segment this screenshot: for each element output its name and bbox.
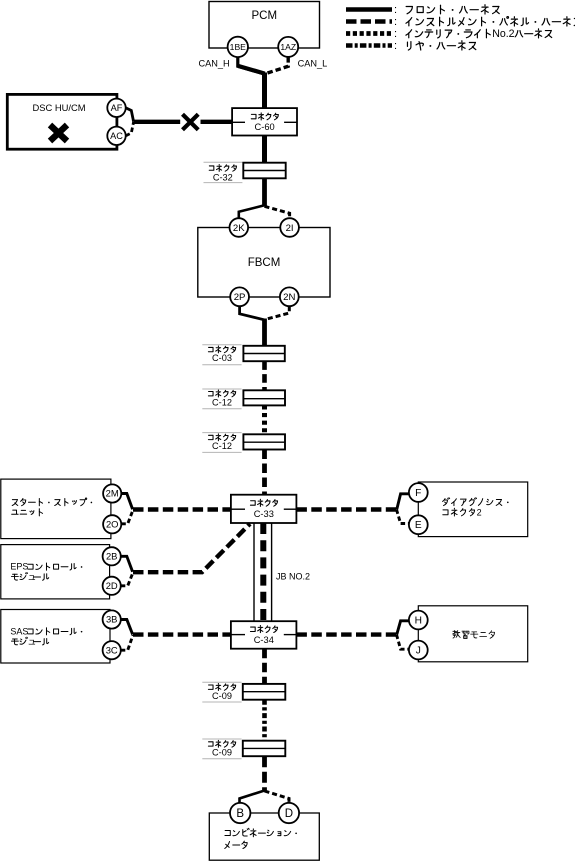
- svg-text:H: H: [415, 616, 422, 627]
- wire CAN_H from 1BE (solid): [238, 57, 264, 74]
- wire merge to F (solid): [397, 494, 409, 510]
- pin H: [409, 611, 428, 630]
- connector C-32 symbol: [243, 163, 285, 179]
- svg-text:2K: 2K: [233, 223, 245, 234]
- svg-text:C-34: C-34: [254, 635, 274, 645]
- wire DSC to C-60 (front harness, solid): [134, 120, 233, 124]
- svg-text:SAS: SAS: [10, 626, 28, 636]
- svg-text:DSC HU/CM: DSC HU/CM: [32, 102, 85, 113]
- DSC bold X mark: [50, 125, 67, 141]
- start-stop unit box: [1, 479, 111, 538]
- svg-text:EPS: EPS: [10, 562, 28, 572]
- svg-text:C-03: C-03: [212, 353, 232, 363]
- svg-text:FBCM: FBCM: [248, 257, 281, 269]
- svg-text:1AZ: 1AZ: [280, 42, 296, 52]
- label JB NO.2: [276, 572, 310, 582]
- connector C-12a symbol: [243, 390, 285, 405]
- svg-text:B: B: [236, 808, 244, 820]
- pin AF: [107, 99, 125, 117]
- connector C-12b label: [212, 441, 232, 451]
- wire split to 2I (dashed): [265, 206, 290, 219]
- connector C-34 label kana: [250, 626, 277, 633]
- connector C-03 label kana: [208, 346, 235, 353]
- legend text: instrument panel harness: [406, 17, 575, 26]
- pin AC: [107, 127, 125, 145]
- connector C-09a label lines: [202, 682, 241, 702]
- pin 2P: [230, 287, 249, 306]
- wire C-33 to C-34 inside JB (dashed): [260, 523, 266, 621]
- wire C-09 to combination meter split (dashed): [262, 756, 267, 792]
- wire from 2D (dashed): [121, 573, 133, 586]
- svg-text:C-32: C-32: [213, 172, 233, 182]
- pin 2N: [280, 287, 299, 306]
- connector C-33 label: [254, 509, 274, 519]
- connector C-12b label kana: [208, 434, 235, 441]
- svg-text:1BE: 1BE: [230, 42, 247, 52]
- combination meter label line 1: [225, 828, 297, 836]
- wire C-03 to C-12 (instrument panel harness, dashed): [262, 361, 267, 390]
- connector C-09b symbol: [243, 741, 285, 757]
- DSC HU/CM label: [32, 102, 85, 113]
- connector C-12a label kana: [208, 390, 235, 397]
- wire C-33 to diagnosis merge (dashed): [296, 507, 396, 511]
- wire from 2B (solid): [121, 556, 133, 572]
- svg-text::: :: [394, 4, 397, 16]
- pin 2O: [103, 515, 121, 533]
- svg-text:2: 2: [477, 507, 482, 517]
- connector C-12a label: [212, 397, 232, 407]
- pin 2K: [230, 218, 249, 237]
- wire trunk FBCM to C-03 (solid): [262, 319, 267, 347]
- wire CAN_H thick elbow: [239, 66, 265, 74]
- svg-text:CAN_L: CAN_L: [298, 59, 328, 69]
- diagnosis label line 2: [443, 507, 482, 517]
- svg-text:2N: 2N: [283, 292, 295, 303]
- connector C-03 label: [212, 353, 232, 363]
- connector C-34 label: [254, 635, 274, 645]
- wire merge to E (dashed): [397, 510, 409, 524]
- pin E: [409, 515, 428, 534]
- svg-text:No.2: No.2: [492, 28, 514, 40]
- pin 3C: [103, 641, 121, 659]
- wire 2P to merge (solid): [240, 306, 265, 320]
- pin 2B: [103, 547, 121, 565]
- svg-text:2B: 2B: [106, 551, 117, 562]
- svg-text::: :: [394, 40, 397, 52]
- wire split to B (solid): [240, 791, 265, 804]
- pin B: [230, 803, 250, 823]
- wire from 2O (dashed): [121, 510, 133, 524]
- wire from AF (solid): [126, 108, 134, 122]
- svg-text:PCM: PCM: [252, 10, 278, 22]
- svg-text:C-09: C-09: [212, 691, 232, 701]
- training monitor box: [418, 606, 527, 662]
- pin 2D: [103, 577, 121, 595]
- wire from AC (dashed): [126, 122, 134, 136]
- start-stop unit label line 2: [12, 509, 43, 516]
- connector C-09a symbol: [243, 684, 285, 700]
- diagnosis connector 2 box: [418, 482, 527, 537]
- wire C-34 to monitor merge (dashed): [296, 632, 396, 636]
- connector C-09a label: [212, 691, 232, 701]
- wire split to 2K (solid): [239, 205, 265, 219]
- crossing X symbol on wire: [183, 114, 199, 130]
- combination meter label line 2: [225, 841, 247, 848]
- wire from 2M (solid): [121, 494, 132, 510]
- PCM label: [252, 10, 278, 22]
- SAS label line 1: [10, 626, 82, 636]
- connector C-60 label kana: [251, 113, 278, 120]
- connector C-12a label lines: [202, 389, 241, 409]
- wire trunk PCM merge to C-60 (front harness, solid): [262, 73, 267, 110]
- legend line sample: rear harness (dash-dot): [346, 40, 397, 52]
- connector C-33 label kana: [250, 499, 277, 506]
- connector C-60 label: [255, 122, 275, 132]
- pin 1BE: [228, 37, 248, 57]
- legend text: front harness: [406, 5, 499, 14]
- wire SAS to C-34 (dashed): [133, 632, 231, 636]
- connector C-60 box: [232, 108, 297, 135]
- svg-text:C-12: C-12: [212, 397, 232, 407]
- pin F: [409, 483, 428, 502]
- svg-text:2I: 2I: [286, 223, 294, 234]
- DSC HU/CM box: [7, 94, 117, 149]
- svg-text:AF: AF: [111, 103, 123, 113]
- connector C-33 box: [231, 495, 297, 523]
- label CAN_L: [298, 59, 328, 69]
- diagnosis label line 1: [443, 498, 509, 506]
- connector C-09b label lines: [202, 739, 241, 759]
- wire C-12 to C-12 (interior light No.2 harness, dotted): [262, 405, 267, 434]
- svg-text:2D: 2D: [106, 580, 118, 591]
- wire CAN_L from 1AZ (dashed): [265, 57, 288, 74]
- svg-text:3C: 3C: [106, 644, 118, 655]
- svg-text:J: J: [416, 646, 421, 657]
- svg-text:C-09: C-09: [212, 748, 232, 758]
- training monitor label: [453, 631, 495, 639]
- svg-text:AC: AC: [110, 131, 123, 141]
- svg-text:2P: 2P: [234, 292, 246, 303]
- combination meter box: [209, 813, 319, 860]
- svg-text:C-33: C-33: [254, 509, 274, 519]
- PCM box: [209, 2, 320, 49]
- legend text: rear harness: [407, 41, 475, 50]
- legend text: interior light No.2 harness: [406, 28, 552, 40]
- wire split to D (dashed): [265, 791, 290, 804]
- label CAN_H: [199, 59, 230, 69]
- connector C-03 label lines: [202, 345, 241, 365]
- legend line sample: interior light No.2 harness (dotted): [346, 28, 397, 40]
- connector C-09b label kana: [208, 740, 235, 747]
- EPS label line 2: [11, 572, 48, 582]
- connector C-03 symbol: [243, 346, 284, 361]
- connector C-12b symbol: [243, 434, 285, 449]
- wire trunk C-32 to FBCM split (solid): [262, 178, 267, 206]
- wire from 3C (dashed): [121, 635, 133, 650]
- FBCM label: [248, 257, 281, 269]
- svg-text:CAN_H: CAN_H: [199, 59, 230, 69]
- svg-text:E: E: [415, 520, 422, 531]
- svg-text::: :: [394, 16, 397, 28]
- wire C-34 to C-09 (dashed): [262, 649, 267, 684]
- connector C-32 label lines: [204, 162, 243, 182]
- wire merge to H (solid): [397, 621, 409, 635]
- connector C-12b label lines: [202, 433, 241, 453]
- SAS label line 2: [11, 637, 48, 647]
- svg-text:F: F: [415, 488, 421, 499]
- legend line sample: instrument panel harness (dashed): [346, 16, 397, 28]
- wire C-09 to C-09 (rear harness, dash-dot): [262, 700, 267, 741]
- FBCM box: [198, 228, 330, 298]
- pin D: [279, 803, 299, 823]
- connector C-32 label kana: [209, 164, 236, 171]
- start-stop unit label line 1: [12, 498, 92, 506]
- connector C-09a label kana: [208, 684, 235, 691]
- svg-text:C-12: C-12: [212, 441, 232, 451]
- connector C-09b label: [212, 748, 232, 758]
- wire C-12 to C-33 (dashed): [262, 450, 267, 495]
- legend line sample: front harness (solid): [346, 4, 397, 16]
- wire from 3B (solid): [121, 620, 133, 635]
- svg-text:2M: 2M: [106, 488, 119, 499]
- EPS control module box: [1, 545, 110, 599]
- svg-text:3B: 3B: [106, 614, 117, 625]
- EPS label line 1: [10, 562, 82, 572]
- connector C-32 label: [213, 172, 233, 182]
- JB No.2 bus channel: [254, 523, 272, 621]
- wire 2N to merge (dashed): [265, 306, 289, 319]
- pin J: [409, 641, 428, 660]
- pin 1AZ: [278, 37, 298, 57]
- wire trunk C-60 to C-32 (solid): [262, 136, 267, 164]
- wire start-stop to C-33 (dashed): [133, 507, 231, 511]
- pin 2M: [103, 484, 121, 502]
- wire EPS to C-33 (dashed, diagonal): [133, 524, 250, 572]
- svg-text:D: D: [285, 808, 293, 820]
- pin 2I: [280, 218, 299, 237]
- SAS control module box: [1, 610, 110, 664]
- pin 3B: [103, 610, 121, 628]
- svg-text:2O: 2O: [106, 519, 119, 530]
- connector C-34 box: [231, 621, 297, 649]
- svg-text:JB NO.2: JB NO.2: [276, 572, 310, 582]
- wire merge to J (dashed): [397, 635, 409, 650]
- svg-text:C-60: C-60: [255, 122, 275, 132]
- svg-text::: :: [394, 28, 397, 40]
